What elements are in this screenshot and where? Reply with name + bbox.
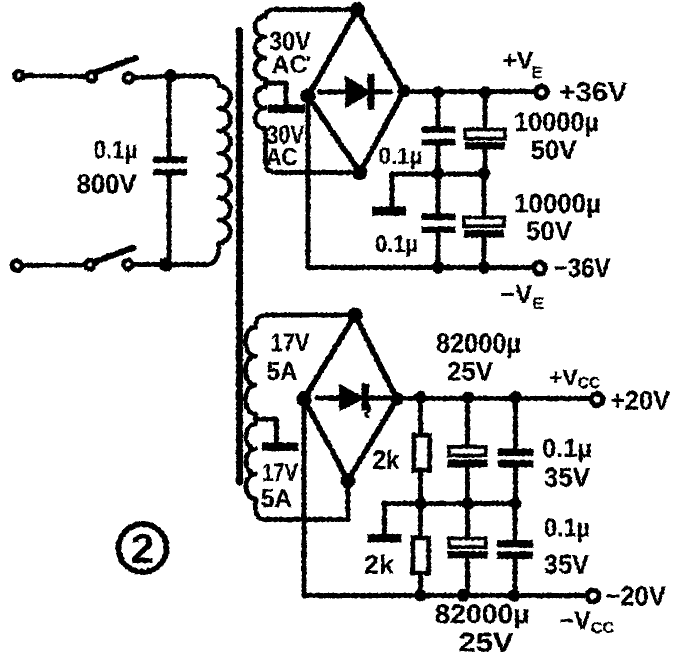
svg-text:AC: AC: [272, 51, 308, 79]
svg-text:5A: 5A: [261, 483, 292, 513]
svg-text:2: 2: [131, 525, 154, 572]
svg-text:82000µ: 82000µ: [436, 328, 521, 359]
svg-text:0.1µ: 0.1µ: [94, 136, 138, 164]
svg-text:800V: 800V: [77, 169, 137, 199]
svg-text:0.1µ: 0.1µ: [542, 433, 592, 463]
svg-text:−36V: −36V: [554, 253, 611, 283]
svg-text:2k: 2k: [364, 550, 395, 580]
svg-text:−20V: −20V: [605, 581, 666, 612]
svg-text:0.1µ: 0.1µ: [544, 513, 590, 543]
svg-text:10000µ: 10000µ: [514, 107, 599, 137]
svg-text:17V: 17V: [271, 328, 311, 358]
svg-text:25V: 25V: [459, 628, 514, 658]
svg-text:+20V: +20V: [610, 386, 670, 416]
svg-text:+36V: +36V: [559, 77, 628, 107]
svg-text:AC: AC: [266, 143, 298, 171]
svg-text:0.1µ: 0.1µ: [375, 231, 418, 258]
svg-text:5A: 5A: [267, 356, 298, 386]
svg-text:25V: 25V: [447, 357, 493, 387]
svg-text:35V: 35V: [544, 550, 589, 580]
svg-text:50V: 50V: [526, 216, 572, 246]
svg-text:0.1µ: 0.1µ: [379, 143, 423, 170]
svg-text:10000µ: 10000µ: [514, 189, 601, 219]
svg-text:50V: 50V: [531, 135, 577, 165]
svg-text:82000µ: 82000µ: [435, 599, 530, 629]
svg-text:2k: 2k: [373, 445, 401, 475]
svg-text:35V: 35V: [544, 463, 590, 493]
